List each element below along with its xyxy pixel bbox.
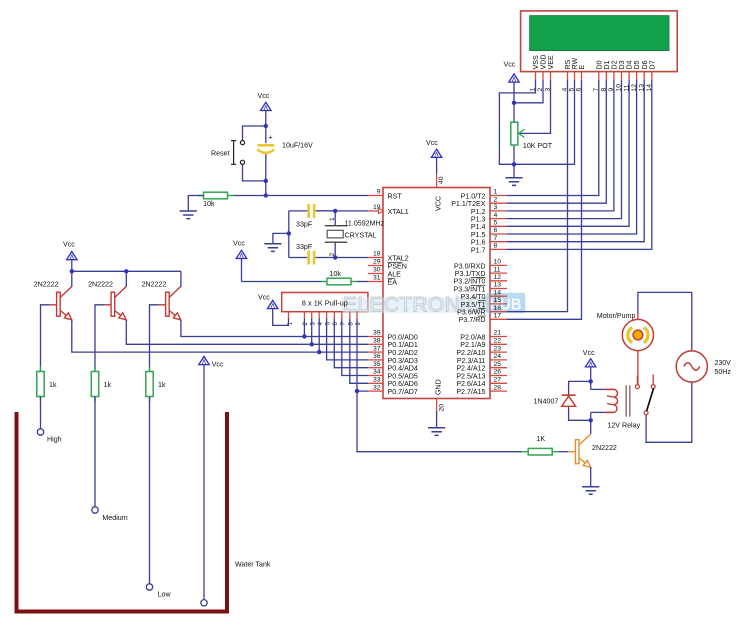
RN1 pin 3	[311, 312, 313, 319]
svg-text:P0.2/AD2: P0.2/AD2	[388, 349, 418, 357]
svg-text:11: 11	[494, 266, 501, 273]
power Vcc symbol relay supply	[586, 359, 596, 367]
node P0.7 junction to relay driver	[355, 389, 359, 393]
wire Q3 base to R3	[150, 305, 159, 372]
svg-text:RST: RST	[388, 192, 403, 200]
U1 pin 24 P2.3/A11	[490, 359, 507, 361]
ground Q4 ground	[582, 487, 599, 495]
node Low probe	[146, 584, 152, 590]
wire Q2 base to R2	[95, 305, 104, 372]
svg-text:VCC: VCC	[435, 196, 443, 211]
U1 pin 18 XTAL2	[368, 257, 383, 259]
U1 pin 17 P3.7/RD	[490, 318, 507, 320]
U1 pin 30 ALE	[368, 273, 383, 275]
svg-text:P2.2/A10: P2.2/A10	[456, 349, 485, 357]
RN1 pin 5	[326, 312, 328, 319]
node relay top junction	[589, 379, 593, 383]
svg-text:40: 40	[438, 176, 445, 184]
wire Q1 collector	[71, 271, 73, 287]
node pot bottom / ground junction	[512, 162, 516, 166]
svg-text:23: 23	[494, 345, 502, 352]
node XTAL1 junction	[333, 209, 337, 213]
resistor network RN1 box	[282, 293, 368, 312]
RN1 pin 1	[288, 312, 290, 319]
U1 pin 14 P3.4/T0	[490, 295, 507, 297]
resistor R1 1k	[40, 367, 42, 402]
svg-text:P0.3/AD3: P0.3/AD3	[388, 357, 418, 365]
wire XTAL1 row	[316, 210, 368, 212]
power Vcc symbol EA pin	[236, 250, 246, 258]
U1 pin 28 P2.7/A15	[490, 390, 507, 392]
water tank outline	[17, 412, 228, 612]
wire Q3 emitter to P0.0 row	[181, 320, 368, 337]
node reset bottom junction	[264, 179, 268, 183]
svg-text:P2.6/A14: P2.6/A14	[456, 380, 485, 388]
wire push button bottom to node	[243, 164, 266, 181]
U1 pin 3 P1.2	[490, 210, 507, 212]
U1 pin 16 P3.6/WR	[490, 311, 507, 313]
svg-text:Vcc: Vcc	[583, 349, 595, 357]
svg-text:21: 21	[494, 330, 502, 337]
power Vcc symbol LCD supply	[509, 74, 519, 82]
U1 pin 33 P0.6/AD6	[368, 382, 383, 384]
wire LCD D1 to U1 P1.1	[507, 80, 606, 203]
svg-text:Water Tank: Water Tank	[235, 561, 271, 569]
U1 pin 39 P0.0/AD0	[368, 336, 383, 338]
svg-text:10K POT: 10K POT	[523, 142, 553, 150]
resistor R4 10k	[198, 195, 234, 197]
U1 pin 13 P3.3/INT1	[490, 288, 507, 290]
resistor R5 10k	[321, 281, 357, 283]
svg-text:7: 7	[494, 235, 498, 242]
svg-text:33pF: 33pF	[296, 221, 313, 229]
svg-text:25: 25	[494, 361, 502, 368]
resistor R3 1k	[149, 367, 151, 402]
wire LCD D6 to U1 P1.6	[507, 80, 644, 242]
U1 pin 15 P3.5/T1	[490, 303, 507, 305]
LCD screen	[530, 16, 669, 51]
U1 pin 31 EA	[368, 281, 383, 283]
svg-text:Vcc: Vcc	[212, 360, 224, 368]
U1 pin 23 P2.2/A10	[490, 351, 507, 353]
wire P0.7 to base resistor	[357, 391, 522, 452]
diode D1 1N4007 flyback	[569, 381, 591, 395]
resistor R6 1K	[522, 451, 558, 453]
RN1 pin 9	[356, 312, 358, 319]
wire LCD D7 to U1 P1.7	[507, 80, 652, 249]
svg-text:27: 27	[494, 377, 502, 384]
svg-text:13: 13	[494, 282, 502, 289]
wire LCD D4 to U1 P1.4	[507, 80, 629, 226]
RN1 pin 4	[318, 312, 320, 319]
svg-text:2N2222: 2N2222	[592, 444, 617, 452]
svg-text:1k: 1k	[158, 381, 166, 389]
wire U1 GND pin to ground	[436, 411, 438, 428]
svg-text:Vcc: Vcc	[63, 240, 75, 248]
svg-text:33: 33	[373, 377, 381, 384]
svg-text:EA: EA	[388, 278, 398, 286]
motor M1 Motor/Pump	[637, 313, 639, 320]
wire RN1 pin 3 to P0.1 row	[311, 319, 313, 345]
power Vcc symbol pull-up network	[268, 300, 278, 308]
svg-text:XTAL1: XTAL1	[388, 208, 409, 216]
capacitor C1 33pF	[289, 210, 335, 212]
wire motor top loop	[638, 292, 692, 351]
wire Q4 emitter to ground	[590, 467, 592, 486]
relay RL1 coil 12V Relay	[590, 381, 592, 389]
svg-text:12V Relay: 12V Relay	[607, 421, 640, 429]
ground U1 ground	[428, 428, 445, 436]
svg-text:2: 2	[329, 253, 336, 257]
svg-text:26: 26	[494, 369, 502, 376]
U1 pin 34 P0.5/AD5	[368, 375, 383, 377]
svg-text:8: 8	[494, 243, 498, 250]
svg-text:50Hz: 50Hz	[715, 369, 732, 376]
U1 pin 36 P0.3/AD3	[368, 359, 383, 361]
svg-text:29: 29	[373, 259, 381, 266]
svg-text:11.0592MHz: 11.0592MHz	[345, 220, 385, 228]
node High probe	[37, 429, 43, 435]
U1 pin 10 P3.0/RXD	[490, 264, 507, 266]
transistor Q4 2N2222 relay driver	[568, 434, 590, 467]
svg-text:34: 34	[373, 369, 381, 376]
svg-text:P1.7: P1.7	[471, 246, 486, 254]
wire LCD VEE to pot wiper	[520, 80, 551, 133]
svg-text:P2.4/A12: P2.4/A12	[456, 365, 485, 373]
svg-text:2N2222: 2N2222	[34, 281, 59, 289]
svg-text:Reset: Reset	[211, 149, 230, 157]
U1 pin 1 P1.0/T2	[490, 195, 507, 197]
wire caps left rail	[288, 211, 290, 258]
U1 pin 27 P2.6/A14	[490, 382, 507, 384]
wire Q1 base to R1	[41, 305, 50, 372]
relay contact blade	[647, 388, 654, 411]
svg-text:P2.0/A8: P2.0/A8	[460, 333, 485, 341]
svg-text:Medium: Medium	[102, 514, 127, 522]
svg-text:GND: GND	[435, 379, 443, 395]
node rail Q1	[70, 269, 74, 273]
IC U1 8051 microcontroller body	[383, 188, 490, 399]
node rail Q2	[124, 269, 128, 273]
svg-text:1: 1	[494, 189, 498, 196]
RN1 pin 7	[341, 312, 343, 319]
wire Q1 emitter to P0.2 row	[72, 320, 368, 352]
U1 pin 19 XTAL1	[368, 210, 383, 212]
RN1 pin 6	[333, 312, 335, 319]
wire 10k to EA pin	[357, 281, 368, 283]
node Medium probe	[92, 507, 98, 513]
svg-text:12: 12	[494, 274, 502, 281]
wire motor bottom to contact	[637, 351, 639, 385]
svg-text:22: 22	[494, 338, 502, 345]
wire LCD VDD to Vcc node	[514, 80, 543, 103]
power Vcc symbol U1 supply	[431, 149, 441, 157]
U1 pin 21 P2.0/A8	[490, 336, 507, 338]
svg-text:8 x 1K Pull-up: 8 x 1K Pull-up	[302, 298, 348, 307]
wire LCD D3 to U1 P1.3	[507, 80, 622, 219]
svg-text:15: 15	[494, 297, 502, 304]
capacitor C3 10uF/16V polarized	[265, 126, 267, 181]
node Vcc probe	[201, 600, 207, 606]
svg-text:D7: D7	[648, 60, 656, 69]
svg-text:38: 38	[373, 338, 381, 345]
U1 pin 9 RST	[368, 195, 383, 197]
wire Vcc to 10k to EA	[242, 281, 322, 283]
wire R1 to High probe	[40, 397, 42, 429]
wire Q4 collector to relay	[590, 420, 592, 434]
push button SW1 Reset	[231, 141, 245, 165]
power Vcc symbol sensor rail	[67, 252, 77, 260]
wire Vcc to RN1 pin 1	[273, 309, 289, 326]
svg-text:P2.3/A11: P2.3/A11	[457, 357, 486, 365]
svg-text:33pF: 33pF	[296, 243, 313, 251]
svg-text:Low: Low	[158, 591, 172, 599]
svg-text:10uF/16V: 10uF/16V	[282, 141, 313, 149]
svg-text:37: 37	[373, 345, 381, 352]
U1 pin 6 P1.5	[490, 233, 507, 235]
wire R3 to Low probe	[149, 397, 151, 584]
wire RN1 pin 5 to U1 P0.3	[327, 319, 368, 360]
svg-text:2: 2	[494, 196, 498, 203]
svg-text:P0.5/AD5: P0.5/AD5	[388, 372, 418, 380]
U1 pin 22 P2.1/A9	[490, 343, 507, 345]
U1 pin 19 XTAL1 input marker	[379, 208, 384, 213]
svg-text:Vcc: Vcc	[426, 139, 438, 147]
RN1 pin 2	[303, 312, 305, 319]
svg-text:P0.0/AD0: P0.0/AD0	[388, 333, 418, 341]
svg-text:2N2222: 2N2222	[142, 281, 167, 289]
svg-text:5: 5	[494, 220, 498, 227]
U1 pin 7 P1.6	[490, 241, 507, 243]
svg-text:1N4007: 1N4007	[534, 398, 559, 406]
svg-text:PSEN: PSEN	[388, 262, 407, 270]
resistor R2 1k	[94, 367, 96, 402]
U1 pin 26 P2.5/A13	[490, 375, 507, 377]
wire Q3 collector	[180, 271, 182, 287]
svg-text:ALE: ALE	[388, 270, 402, 278]
svg-text:3: 3	[494, 204, 498, 211]
relay core	[626, 385, 630, 416]
RN1 pin 8	[349, 312, 351, 319]
wire RN1 pin 9 to U1 P0.7	[357, 319, 368, 392]
potentiometer RV1 10K POT	[513, 103, 515, 165]
U1 pin 25 P2.4/A12	[490, 367, 507, 369]
svg-text:17: 17	[494, 313, 502, 320]
LCD module LCD1 body	[521, 11, 678, 72]
wire Vcc node to push button top	[243, 126, 266, 141]
U1 pin 38 P0.1/AD1	[368, 343, 383, 345]
svg-text:P2.1/A9: P2.1/A9	[460, 341, 485, 349]
crystal X1 11.0592MHz	[334, 211, 336, 258]
ground crystal ground	[264, 244, 281, 252]
svg-text:230V: 230V	[715, 360, 732, 367]
svg-text:9: 9	[377, 189, 381, 196]
svg-text:Motor/Pump: Motor/Pump	[597, 312, 636, 320]
wire caps rail to ground	[273, 233, 289, 243]
U1 pin 12 P3.2/INT0	[490, 280, 507, 282]
svg-text:16: 16	[494, 305, 502, 312]
wire collector rail	[72, 270, 181, 272]
node P0.2 junction	[317, 350, 321, 354]
U1 pin 2 P1.1/T2EX	[490, 202, 507, 204]
svg-text:Vcc: Vcc	[258, 294, 270, 302]
svg-text:36: 36	[373, 353, 381, 360]
svg-text:XTAL2: XTAL2	[388, 254, 409, 262]
wire pot bottom to ground	[513, 164, 515, 178]
ground reset 10k ground	[180, 211, 197, 219]
svg-text:10k: 10k	[330, 270, 342, 278]
wire LCD E to U1 P3.7	[507, 80, 582, 319]
wire LCD VSS to ground rail	[499, 80, 535, 164]
U1 pin 32 P0.7/AD7	[368, 390, 383, 392]
svg-text:High: High	[47, 436, 62, 444]
U1 pin 37 P0.2/AD2	[368, 351, 383, 353]
svg-text:24: 24	[494, 353, 502, 360]
U1 pin 29 PSEN	[368, 265, 383, 267]
relay contact switch	[636, 376, 638, 385]
node caps ground junction	[287, 231, 291, 235]
svg-text:P2.7/A15: P2.7/A15	[456, 388, 485, 396]
wire LCD D2 to U1 P1.2	[507, 80, 614, 211]
node RST junction	[264, 193, 268, 197]
svg-text:10k: 10k	[203, 200, 215, 208]
transistor Q2 2N2222	[104, 287, 126, 320]
svg-text:P0.4/AD4: P0.4/AD4	[388, 365, 418, 373]
U1 pin 4 P1.3	[490, 218, 507, 220]
ground LCD / pot ground	[505, 178, 522, 186]
svg-text:P3.7/RD: P3.7/RD	[459, 316, 486, 324]
svg-text:2N2222: 2N2222	[88, 281, 113, 289]
svg-text:35: 35	[373, 361, 381, 368]
node P0.0 junction	[302, 334, 306, 338]
wire XTAL2 row	[335, 257, 368, 259]
svg-text:20: 20	[439, 404, 446, 412]
svg-text:E: E	[578, 65, 586, 70]
svg-text:Vcc: Vcc	[258, 92, 270, 100]
svg-text:32: 32	[373, 384, 381, 391]
U1 pin 35 P0.4/AD4	[368, 367, 383, 369]
svg-text:10: 10	[494, 259, 502, 266]
power Vcc symbol reset circuit	[261, 102, 271, 110]
node relay bottom junction	[589, 418, 593, 422]
wire Q2 emitter to P0.1 row	[126, 320, 368, 345]
svg-text:28: 28	[494, 384, 502, 391]
svg-text:1K: 1K	[536, 435, 545, 443]
node VDD junction	[512, 101, 516, 105]
wire LCD D0 to U1 P1.0	[507, 80, 599, 196]
svg-text:Vcc: Vcc	[504, 61, 516, 69]
wire RN1 pin 7 to U1 P0.5	[342, 319, 368, 376]
node reset top junction	[264, 124, 268, 128]
AC source V1 230V 50Hz	[676, 351, 707, 382]
transistor Q1 2N2222	[50, 287, 72, 320]
wire RN1 pin 6 to U1 P0.4	[334, 319, 368, 368]
wire reset node down to RST row	[265, 181, 267, 196]
power Vcc symbol tank electrode	[199, 356, 209, 364]
wire contact common to AC source	[646, 382, 692, 442]
svg-text:P0.6/AD6: P0.6/AD6	[388, 380, 418, 388]
svg-text:31: 31	[373, 275, 381, 282]
U1 pin 5 P1.4	[490, 225, 507, 227]
capacitor C2 33pF	[289, 257, 335, 259]
svg-text:4: 4	[494, 212, 498, 219]
svg-text:1k: 1k	[49, 381, 57, 389]
svg-text:P2.5/A13: P2.5/A13	[456, 372, 485, 380]
svg-text:1k: 1k	[104, 381, 112, 389]
svg-text:P0.1/AD1: P0.1/AD1	[388, 341, 418, 349]
wire RN1 pin 2 to P0.0 row	[303, 319, 305, 337]
svg-text:VEE: VEE	[547, 55, 555, 69]
wire RN1 pin 4 to P0.2 row	[318, 319, 320, 353]
wire Q2 collector	[125, 271, 127, 287]
wire RST row	[234, 195, 369, 197]
svg-text:1: 1	[329, 217, 336, 221]
svg-text:18: 18	[373, 251, 381, 258]
node P0.1 junction	[310, 342, 314, 346]
wire LCD D5 to U1 P1.5	[507, 80, 637, 234]
svg-text:39: 39	[373, 330, 381, 337]
wire RN1 pin 8 to U1 P0.6	[350, 319, 368, 384]
decorative watermark (not labelled further)	[342, 293, 526, 317]
transistor Q3 2N2222	[159, 287, 181, 320]
wire LCD RW to ground rail	[514, 80, 575, 164]
svg-text:6: 6	[494, 227, 498, 234]
U1 pin 8 P1.7	[490, 248, 507, 250]
svg-text:CRYSTAL: CRYSTAL	[345, 231, 377, 239]
svg-text:+: +	[268, 133, 273, 142]
node XTAL2 junction	[333, 255, 337, 259]
wire R2 to Medium probe	[94, 397, 96, 507]
wire R6 to Q4 base	[558, 451, 568, 453]
svg-text:14: 14	[494, 289, 502, 296]
svg-text:P0.7/AD7: P0.7/AD7	[388, 388, 418, 396]
U1 pin 11 P3.1/TXD	[490, 272, 507, 274]
svg-text:30: 30	[373, 267, 381, 274]
wire LCD RS to U1 P3.6	[507, 80, 568, 312]
wire 10k to ground	[188, 196, 203, 212]
svg-text:Vcc: Vcc	[233, 240, 245, 248]
